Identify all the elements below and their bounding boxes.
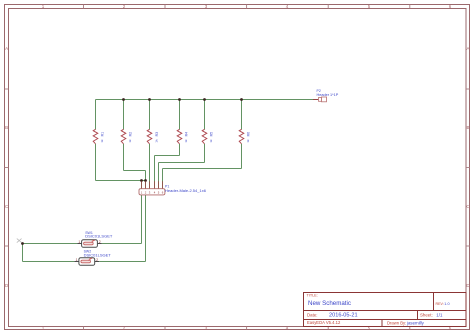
- svg-text:1.0: 1.0: [444, 302, 449, 306]
- svg-text:REV:: REV:: [436, 302, 444, 306]
- resistor R5: [202, 129, 213, 144]
- wire col5 vertical upper: [204, 100, 206, 130]
- svg-text:Date:: Date:: [307, 312, 318, 317]
- junction top rail at col6: [240, 98, 243, 101]
- title block outline: [304, 293, 467, 327]
- svg-text:1: 1: [78, 240, 80, 244]
- svg-text:Sheet:: Sheet:: [420, 312, 433, 317]
- resistor R4: [177, 129, 188, 144]
- svg-text:A: A: [466, 46, 469, 51]
- svg-text:1k: 1k: [155, 139, 159, 143]
- wire top rail: [96, 99, 314, 101]
- svg-text:A: A: [5, 46, 8, 51]
- svg-text:1k: 1k: [100, 139, 104, 143]
- svg-text:2016-05-21: 2016-05-21: [329, 312, 358, 318]
- wire pin4 vertical: [154, 156, 156, 190]
- frame ticks left: [5, 89, 9, 246]
- connector P2 pin: [313, 99, 319, 101]
- frame column numbers top: [42, 4, 452, 9]
- frame ticks bottom: [84, 327, 410, 330]
- svg-text:1: 1: [76, 258, 78, 262]
- wire SW1 row right: [102, 243, 142, 245]
- svg-text:B: B: [466, 125, 469, 130]
- junction top rail at col4: [178, 98, 181, 101]
- wire col3 vertical upper: [149, 100, 151, 130]
- svg-text:TITLE:: TITLE:: [307, 294, 318, 298]
- resistor R2: [121, 129, 132, 144]
- wire col2 vertical upper: [123, 100, 125, 130]
- switch SW2 pins: [74, 261, 99, 263]
- junction SW left: [21, 242, 24, 245]
- wire col5 horizontal to pin5: [159, 162, 205, 164]
- svg-text:1/1: 1/1: [436, 312, 443, 317]
- svg-text:R1: R1: [100, 132, 104, 137]
- wire col1 horizontal to P1 pins: [96, 180, 146, 182]
- switch SW1 body: [82, 240, 98, 248]
- wire pin2 vertical down to SW2: [145, 171, 147, 262]
- wire col4 horizontal to pin4: [155, 155, 180, 157]
- svg-text:Header 1*1P: Header 1*1P: [317, 93, 339, 97]
- resistor R1: [93, 129, 104, 144]
- wire SW1 row left: [23, 243, 78, 245]
- connector P2 pad: [319, 98, 322, 102]
- svg-text:1k: 1k: [184, 139, 188, 143]
- svg-text:1k: 1k: [128, 139, 132, 143]
- wire SW link vertical: [22, 244, 24, 262]
- svg-text:jasemilly: jasemilly: [406, 320, 425, 325]
- wire pin1 vertical down to SW1: [141, 181, 143, 244]
- svg-text:2: 2: [99, 240, 101, 244]
- wire SW2 row left: [23, 261, 75, 263]
- wire col2 horizontal: [124, 170, 146, 172]
- svg-text:1k: 1k: [209, 139, 213, 143]
- frame row letters left: [5, 46, 9, 288]
- svg-text:New Schematic: New Schematic: [308, 300, 351, 307]
- switch SW2 body: [79, 258, 95, 266]
- junction top rail at col2: [122, 98, 125, 101]
- connector P1 pins: [142, 181, 163, 189]
- resistor R6: [239, 129, 250, 144]
- junction top rail at col5: [203, 98, 206, 101]
- wire col1 vertical upper: [95, 100, 97, 130]
- switch SW1 actuator: [84, 240, 95, 245]
- svg-text:R2: R2: [128, 132, 132, 137]
- wire pin6 vertical: [162, 169, 164, 190]
- svg-text:R3: R3: [155, 132, 159, 137]
- wire col5 vertical lower: [204, 144, 206, 163]
- wire col4 vertical lower: [179, 144, 181, 156]
- svg-text:R6: R6: [246, 132, 250, 137]
- wire SW2 row right: [99, 261, 145, 263]
- svg-text:DSIC01LSGET: DSIC01LSGET: [85, 233, 113, 238]
- wire col6 vertical upper: [241, 100, 243, 130]
- wire col3 vertical lower to pin3: [149, 144, 151, 189]
- connector P1 pin numbers: [141, 190, 164, 194]
- connector P1 body: [139, 189, 165, 195]
- resistor R3: [147, 129, 159, 144]
- svg-text:EasyEDA V5.4.12: EasyEDA V5.4.12: [307, 320, 341, 325]
- wire pin5 vertical: [158, 163, 160, 190]
- svg-text:B: B: [5, 125, 8, 130]
- frame column numbers bottom: [42, 326, 452, 331]
- frame ticks right: [466, 89, 470, 246]
- svg-text:1k: 1k: [246, 139, 250, 143]
- svg-text:Header-Male-2.54_1x6: Header-Male-2.54_1x6: [165, 188, 207, 193]
- wire col2 vertical lower: [123, 144, 125, 171]
- switch SW1 pins: [77, 243, 102, 245]
- connector P2 body: [322, 97, 327, 102]
- wire col1 vertical lower: [95, 144, 97, 181]
- wire col6 vertical lower: [241, 144, 243, 169]
- svg-text:Drawn By:: Drawn By:: [387, 320, 406, 325]
- no-connect cross: [17, 239, 22, 243]
- switch SW2 actuator: [81, 258, 92, 263]
- svg-text:R4: R4: [184, 132, 188, 137]
- junction pin2 wire: [144, 179, 147, 182]
- frame row letters right: [466, 46, 470, 288]
- wire col6 horizontal to pin6: [163, 168, 242, 170]
- svg-text:DSIC01LSGET: DSIC01LSGET: [84, 252, 112, 257]
- svg-text:R5: R5: [209, 132, 213, 137]
- frame ticks top: [84, 5, 410, 9]
- junction top rail at col3: [148, 98, 151, 101]
- wire col4 vertical upper: [179, 100, 181, 130]
- svg-text:2: 2: [96, 258, 98, 262]
- junction pin1 wire: [140, 179, 143, 182]
